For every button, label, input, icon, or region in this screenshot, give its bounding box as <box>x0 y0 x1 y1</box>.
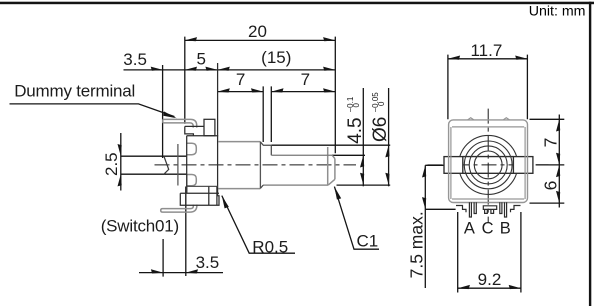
svg-text:5: 5 <box>196 50 205 69</box>
cone edges <box>260 142 263 188</box>
arrows row2 <box>151 67 163 71</box>
body top edge <box>187 135 219 137</box>
medium block <box>185 126 204 135</box>
centerline right view vertical <box>487 109 489 223</box>
arrows dim 7.5max <box>422 165 426 177</box>
dim 9.2 <box>458 212 521 293</box>
svg-text:20: 20 <box>248 22 267 41</box>
svg-text:−0.1: −0.1 <box>346 96 355 112</box>
dim 3.5 bottom line <box>139 272 223 274</box>
leader dummy terminal <box>10 104 175 117</box>
top border line <box>0 2 594 4</box>
arrowhead dummy <box>163 111 177 118</box>
body left face <box>186 136 188 194</box>
arrows dim 11.7 <box>448 56 460 60</box>
svg-text:2.5: 2.5 <box>102 152 121 176</box>
svg-text:C1: C1 <box>357 231 379 250</box>
right border line <box>589 2 591 306</box>
circle 4 <box>474 151 502 179</box>
arrows dim dia6 <box>385 145 389 157</box>
arrows dim 2.5 <box>118 144 122 156</box>
switch terminal strip <box>161 205 197 213</box>
svg-text:7.5 max.: 7.5 max. <box>406 211 426 278</box>
dim 20 line <box>185 39 335 41</box>
centerline shaft <box>155 164 357 166</box>
svg-text:4.5: 4.5 <box>345 117 366 143</box>
top bumps <box>468 118 510 120</box>
shaft flat top <box>271 154 332 156</box>
body right face <box>217 63 219 196</box>
body rounded square <box>449 120 528 203</box>
terminal C <box>483 206 496 214</box>
bracket foot left <box>456 206 466 213</box>
svg-text:7: 7 <box>540 138 560 148</box>
circle 2 <box>464 141 512 189</box>
leader C1 <box>334 187 379 250</box>
arrows dim 4.5 <box>360 155 364 167</box>
dummy terminal <box>163 119 197 127</box>
arrows dim 9.2 <box>458 285 470 289</box>
band lines <box>463 157 514 174</box>
arrows dim 6 right <box>556 165 560 177</box>
svg-text:Dummy terminal: Dummy terminal <box>14 81 135 100</box>
dim 7 lines <box>218 91 336 93</box>
bracket inner line <box>177 144 179 186</box>
leader R0.5 <box>222 196 295 254</box>
lower tab edge <box>186 175 188 194</box>
centerline right view horizontal <box>428 164 549 166</box>
arrows dim 7 <box>218 88 230 92</box>
upper tab <box>187 143 197 155</box>
tol dia6 <box>371 92 386 113</box>
svg-text:3.5: 3.5 <box>123 50 147 69</box>
svg-text:B: B <box>500 220 511 238</box>
dim row 3.5/5/(15) line <box>124 69 336 71</box>
dim 7.5max <box>425 165 455 288</box>
body inner line <box>187 185 218 187</box>
shaft extension lines <box>271 145 390 185</box>
arrowhead R0.5 <box>222 196 229 209</box>
terminal A legs <box>469 202 476 217</box>
arrows bottom 3.5 <box>151 269 163 273</box>
svg-text:6: 6 <box>540 181 560 191</box>
bushing <box>218 142 260 189</box>
dim dia6 line <box>388 88 390 186</box>
svg-text:(15): (15) <box>261 48 291 67</box>
bottom plate <box>180 186 219 205</box>
circle 3 <box>469 146 507 184</box>
svg-text:Unit: mm: Unit: mm <box>529 4 586 20</box>
right wing <box>513 157 533 174</box>
svg-text:−0.05: −0.05 <box>371 92 380 113</box>
tol 4.5 <box>346 96 361 112</box>
svg-text:A: A <box>464 220 475 238</box>
shaft tip face <box>334 159 336 180</box>
outer circle <box>459 135 518 194</box>
terminal B legs <box>500 202 507 217</box>
svg-text:Ø6: Ø6 <box>370 117 391 142</box>
svg-text:(Switch01): (Switch01) <box>101 216 179 235</box>
svg-text:C: C <box>482 220 494 238</box>
tall block <box>204 119 215 135</box>
body inner lines <box>451 127 525 199</box>
svg-text:R0.5: R0.5 <box>252 238 288 257</box>
dim 2.5 <box>121 133 187 191</box>
shaft chamfer ring <box>327 147 329 185</box>
svg-text:7: 7 <box>236 70 245 89</box>
left wing <box>444 157 463 174</box>
svg-text:3.5: 3.5 <box>196 253 220 272</box>
dim 7/6 line <box>530 115 565 208</box>
dim 11.7 <box>448 55 528 120</box>
terminal hook zigzag <box>164 156 169 174</box>
svg-text:9.2: 9.2 <box>478 270 502 289</box>
svg-text:11.7: 11.7 <box>470 41 502 60</box>
arrows dim 20 <box>185 37 197 41</box>
arrows dim 7 right <box>556 119 560 131</box>
shaft bottom edge <box>263 184 328 186</box>
bracket foot right <box>511 206 521 213</box>
shaft tip chamfers <box>328 155 335 185</box>
arrowhead C1 <box>334 187 341 200</box>
collar top edge <box>263 145 271 155</box>
extension lines left view <box>163 37 336 277</box>
lower tab <box>187 175 197 186</box>
svg-text:7: 7 <box>301 70 310 89</box>
dim 4.5 line <box>362 88 364 186</box>
